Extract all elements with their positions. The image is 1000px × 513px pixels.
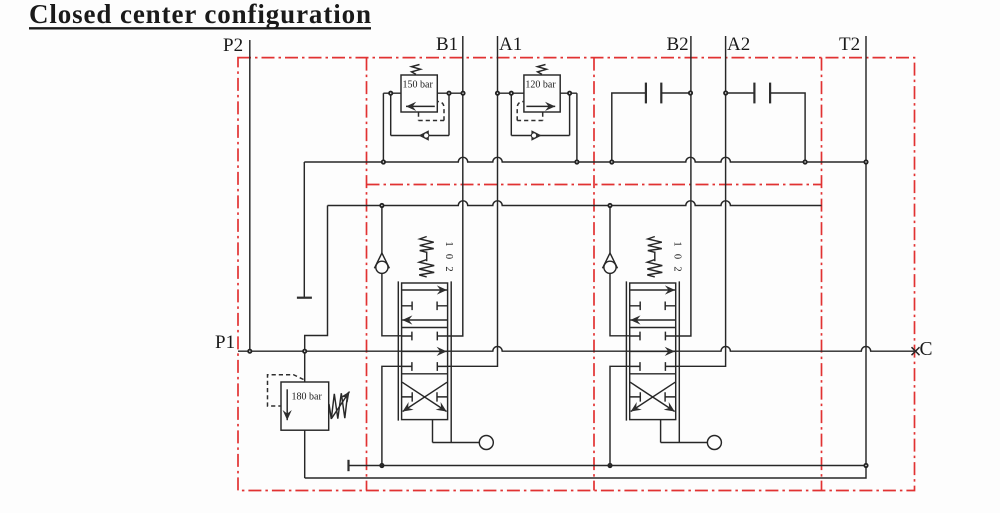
node P1 P2 junction xyxy=(248,350,251,353)
plug symbol at B2 left lead xyxy=(612,93,646,162)
MRV flow arrow down xyxy=(286,389,288,420)
node upper bus RV1 xyxy=(382,160,385,163)
load check valve seat xyxy=(374,253,389,268)
centering spring upper xyxy=(420,237,434,253)
wire second bus left drop with jog to P1 line xyxy=(305,206,328,352)
wire P1 supply line with hops xyxy=(238,347,914,352)
relief valve RV2 flow arrow xyxy=(526,105,555,107)
centering spring lower xyxy=(419,260,434,277)
relief valve RV2 spring xyxy=(538,65,547,75)
wire RV1 bypass bottom xyxy=(391,135,449,137)
svg-text:T2: T2 xyxy=(839,34,860,55)
wire RV2 bypass left vertical xyxy=(510,93,512,135)
relief valve RV2 pilot dashed line xyxy=(517,102,543,121)
red enclosure outer box xyxy=(238,58,915,491)
spool stem line xyxy=(426,252,428,262)
wire RV1 bypass left vertical xyxy=(390,93,392,135)
red inner horizontal border of work sections xyxy=(367,184,822,186)
plug symbol at A2 left lead xyxy=(726,92,755,94)
wire tank return line xyxy=(349,465,867,467)
plug symbol at A2 right lead xyxy=(770,93,805,162)
wire work port A vertical xyxy=(448,36,498,366)
relief valve RV1 flow arrow xyxy=(406,105,435,107)
node tank T2 junction xyxy=(864,464,867,467)
MRV pilot dashed line xyxy=(268,375,304,406)
position 0 blocked ports bottom xyxy=(402,362,448,371)
wire upper bus (relief gallery) with hops xyxy=(304,157,866,162)
wire tank port stub and drop xyxy=(382,366,402,465)
node RV1 right tee xyxy=(447,92,450,95)
svg-text:2: 2 xyxy=(443,266,454,271)
wire lever link xyxy=(433,442,480,444)
svg-text:P2: P2 xyxy=(223,35,243,56)
main relief valve MRV 180 bar body xyxy=(281,382,329,430)
svg-text:A1: A1 xyxy=(499,34,522,55)
node on tank line xyxy=(380,464,383,467)
node B1 relief junction xyxy=(461,92,464,95)
position 1 flow arrow left xyxy=(402,319,447,321)
valve position divider 2 xyxy=(402,373,448,375)
position 1 flow arrow right xyxy=(402,289,447,291)
svg-text:A2: A2 xyxy=(727,34,750,55)
directional control valve DV1 xyxy=(374,36,497,467)
svg-text:0: 0 xyxy=(443,254,454,259)
node A2 plug junction xyxy=(724,91,727,94)
valve body right rail xyxy=(450,281,452,442)
node upper bus A2 plug xyxy=(803,160,806,163)
wire port T2 vertical xyxy=(865,36,867,466)
valve body left rail xyxy=(397,281,399,420)
wire load check to inlet port stub xyxy=(382,273,402,335)
wire load-check drop from second bus xyxy=(381,206,383,254)
svg-text:150 bar: 150 bar xyxy=(403,80,434,91)
svg-text:P1: P1 xyxy=(215,332,235,353)
node A1 relief junction xyxy=(496,92,499,95)
wire upper bus left drop to plugged end xyxy=(303,162,305,298)
position 1 blocked ports xyxy=(402,302,448,311)
wire work port B vertical xyxy=(448,36,463,336)
MRV adjustable spring xyxy=(329,393,348,419)
position 2 blocked ports xyxy=(402,392,448,401)
svg-text:Closed center configuration: Closed center configuration xyxy=(29,0,371,29)
node upper bus T2 xyxy=(864,160,867,163)
wire lower drain line xyxy=(305,466,866,479)
wire RV1 left drop to upper bus xyxy=(382,93,384,162)
wire RV2 bypass bottom xyxy=(511,135,569,137)
node RV2 bypass right tee xyxy=(568,92,571,95)
MRV adjustment arrow xyxy=(332,392,350,419)
wire second bus (pilot gallery) with hops xyxy=(328,201,822,206)
node upper bus RV2 xyxy=(575,160,578,163)
wire RV2 right drop to upper bus xyxy=(576,93,578,162)
wire RV2 bypass right inner vertical xyxy=(569,93,571,135)
plug symbol at B2 bars xyxy=(645,83,647,104)
wire RV1 outlet horizontal to B1 xyxy=(437,92,463,94)
wire port P2 vertical xyxy=(249,40,251,351)
relief valve RV2 120 bar body xyxy=(524,75,560,112)
node on second bus xyxy=(380,204,383,207)
wire RV1 inlet horizontal xyxy=(383,92,401,94)
svg-text:B1: B1 xyxy=(436,34,458,55)
position 0 flow arrow right xyxy=(402,350,447,352)
red divider line between section 1 and section 2 xyxy=(593,58,595,491)
red divider line between section 2 and outlet xyxy=(821,58,823,491)
plug symbol at A2 bars xyxy=(753,83,755,104)
relief valve RV1 150 bar body xyxy=(401,75,437,112)
red divider line between inlet and section 1 xyxy=(366,58,368,491)
load check valve ball xyxy=(376,261,388,273)
plugged line end bar xyxy=(297,297,312,299)
node P1 MRV junction xyxy=(303,350,306,353)
position 2 crossed arrow b xyxy=(402,382,447,411)
node RV1 bypass tee xyxy=(389,92,392,95)
node B2 plug junction xyxy=(689,91,692,94)
check valve CV2 in RV2 bypass xyxy=(531,130,541,141)
wire P1 to main relief MRV xyxy=(304,351,306,382)
directional control valve DV2 (section 2) xyxy=(603,36,726,467)
wire MRV drain to lower return xyxy=(304,430,306,478)
lever end circle xyxy=(479,436,493,450)
valve envelope box xyxy=(402,283,448,420)
node upper bus B2 plug xyxy=(610,160,613,163)
plug symbol at B2 right lead xyxy=(661,92,690,94)
svg-text:120 bar: 120 bar xyxy=(525,80,556,91)
position 0 blocked ports top xyxy=(402,332,448,341)
relief valve RV1 spring xyxy=(412,65,421,75)
check valve CV1 in RV1 bypass xyxy=(419,130,429,141)
relief valve RV1 pilot dashed line xyxy=(419,102,445,121)
wire spool end stub xyxy=(432,420,434,443)
X plug mark at C xyxy=(912,347,920,355)
svg-text:C: C xyxy=(920,339,933,360)
svg-text:1: 1 xyxy=(443,241,454,246)
wire RV1 bypass right vertical xyxy=(448,93,450,135)
svg-text:180 bar: 180 bar xyxy=(292,392,323,403)
position 2 crossed arrow a xyxy=(403,382,448,411)
tank return plugged end bar xyxy=(347,460,349,471)
wire RV2 outlet horizontal xyxy=(560,92,577,94)
svg-text:B2: B2 xyxy=(667,34,689,55)
node RV2 bypass left tee xyxy=(510,92,513,95)
valve position divider 1 xyxy=(402,327,448,329)
wire RV2 inlet horizontal from A1 xyxy=(498,92,524,94)
